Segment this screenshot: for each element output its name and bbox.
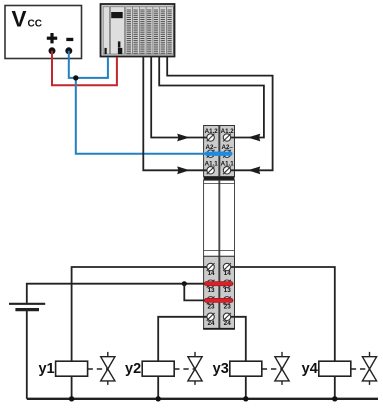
solenoid coil y1 bbox=[56, 361, 88, 376]
wire blue branch to A2 bbox=[76, 78, 208, 154]
terminal 13 right bbox=[223, 280, 231, 288]
mechanical link y3 bbox=[262, 368, 282, 370]
svg-text:y2: y2 bbox=[125, 361, 141, 377]
svg-text:y1: y1 bbox=[38, 361, 54, 377]
terminal 23 right bbox=[223, 297, 231, 305]
junction y3 bus bbox=[243, 396, 248, 401]
terminal A2 left bbox=[207, 150, 215, 158]
arrowhead into A1.2 right bbox=[248, 134, 260, 142]
minus terminal label bbox=[66, 38, 73, 41]
solenoid coil y4 bbox=[319, 361, 351, 376]
svg-text:13: 13 bbox=[207, 287, 215, 294]
valve y4 bbox=[362, 352, 376, 385]
wire 13 left to battery bbox=[27, 284, 209, 303]
solenoid coil y2 bbox=[142, 361, 174, 376]
terminal A1.2 right bbox=[223, 134, 231, 142]
terminal 13 left bbox=[207, 280, 215, 288]
wire blue Vcc- to PLC bbox=[69, 51, 108, 78]
terminal 14 right bbox=[223, 263, 231, 271]
junction y4 bus bbox=[332, 396, 337, 401]
terminal A1.2 left bbox=[207, 134, 215, 142]
junction blue bbox=[73, 75, 78, 80]
terminal A1.1 left bbox=[207, 166, 215, 174]
terminal 24 right bbox=[223, 313, 231, 321]
wire PLC to A1.2 right bbox=[159, 57, 264, 138]
svg-text:23: 23 bbox=[207, 304, 215, 311]
PLC module U1 bbox=[101, 4, 175, 57]
relay K1 body bbox=[204, 180, 235, 256]
valve y2 bbox=[188, 352, 202, 385]
plus terminal dot bbox=[49, 47, 56, 54]
jumper blue A2 bbox=[207, 151, 230, 155]
wire PLC to A1.2 left bbox=[151, 57, 209, 138]
arrowhead into A1.2 left bbox=[177, 134, 190, 142]
junction node 13/23 bbox=[182, 281, 187, 286]
wire red Vcc+ to PLC bbox=[52, 51, 117, 85]
plus terminal label bbox=[47, 33, 57, 43]
terminal 14 left bbox=[207, 263, 215, 271]
svg-text:V: V bbox=[12, 7, 27, 32]
wire battery minus to bus bbox=[26, 311, 28, 399]
terminal 24 left bbox=[207, 313, 215, 321]
relay K1 terminal block bottom bbox=[203, 256, 235, 329]
svg-text:13: 13 bbox=[224, 287, 232, 294]
junction y2 bus bbox=[156, 396, 161, 401]
wire 24 right to y3 bbox=[228, 317, 246, 399]
bus bottom bbox=[27, 398, 378, 400]
jumper red 13 bbox=[206, 281, 231, 286]
relay K1 terminal block top bbox=[204, 126, 235, 181]
PLC I/O cards bbox=[126, 7, 174, 55]
valve y3 bbox=[275, 352, 289, 385]
wire PLC to A1.1 left bbox=[143, 57, 209, 170]
jumper red 23 bbox=[206, 298, 231, 303]
svg-text:y4: y4 bbox=[302, 361, 318, 377]
terminal 23 left bbox=[207, 297, 215, 305]
mechanical link y1 bbox=[88, 368, 108, 370]
label Vcc bbox=[12, 7, 42, 32]
arrowhead into A1.1 right bbox=[248, 166, 260, 174]
wire 14 right to y4 bbox=[228, 267, 335, 399]
battery B1 bbox=[9, 304, 45, 310]
wire 14 left to y1 bbox=[72, 267, 209, 399]
voltage source Vcc box bbox=[5, 6, 82, 59]
wire branch to 23 left bbox=[184, 284, 209, 301]
minus terminal dot bbox=[65, 47, 72, 54]
mechanical link y4 bbox=[351, 368, 370, 370]
terminal A2 right bbox=[223, 150, 231, 158]
mechanical link y2 bbox=[174, 368, 195, 370]
valve y1 bbox=[101, 352, 115, 385]
wire 24 left to y2 bbox=[158, 317, 209, 399]
svg-text:CC: CC bbox=[28, 19, 42, 30]
junction y1 bus bbox=[69, 396, 74, 401]
terminal A1.1 right bbox=[223, 166, 231, 174]
svg-text:y3: y3 bbox=[213, 361, 229, 377]
wire PLC to A1.1 right bbox=[167, 57, 272, 170]
arrowhead into A1.1 left bbox=[177, 166, 190, 174]
svg-text:14: 14 bbox=[207, 270, 215, 277]
svg-text:23: 23 bbox=[224, 304, 232, 311]
svg-text:14: 14 bbox=[224, 270, 232, 277]
solenoid coil y3 bbox=[230, 361, 262, 376]
